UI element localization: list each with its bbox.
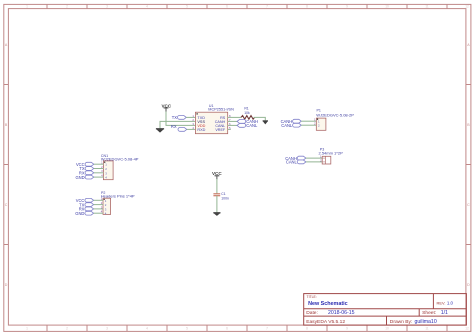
svg-text:2: 2 [66,5,68,9]
svg-text:VCC: VCC [212,171,222,176]
wire TX to P2 pin 2 [94,204,103,206]
net flag CANH (at P1) [281,119,302,124]
connector P2 Headers Pins 1*4P [101,191,135,214]
connector CN1 WJ2EDGVC-5.08-4P [101,154,139,180]
svg-text:GND: GND [75,211,84,216]
wire CANL to P1 pin 2 [301,124,316,126]
connector P1 WJ2EDGVC-5.08-2P [316,109,354,131]
wire CANH to P3 pin 1 [306,157,322,159]
net flag TX (at CN1) [79,166,93,171]
svg-text:6: 6 [226,5,228,9]
title block texts [306,295,453,325]
svg-text:1: 1 [26,327,28,331]
wire GND to CN1 pin 4 [94,176,104,178]
wire U1 CANL to flag [228,124,238,126]
svg-text:5: 5 [186,327,188,331]
svg-text:3: 3 [106,5,108,9]
wire VCC to CN1 pin 1 [94,163,104,165]
svg-text:Date:: Date: [306,310,318,316]
svg-text:New Schematic: New Schematic [308,301,348,307]
wire GND to P2 pin 4 [94,212,103,214]
svg-text:7: 7 [266,327,268,331]
svg-text:12: 12 [465,327,469,331]
svg-text:CANL: CANL [281,123,293,128]
svg-text:9: 9 [346,327,348,331]
wire RX to CN1 pin 3 [94,172,104,174]
svg-text:C: C [5,203,8,207]
wire U1 RS to R1 [228,116,241,118]
wire VCC to P2 pin 1 [94,199,103,201]
svg-text:6: 6 [226,327,228,331]
svg-text:8: 8 [306,5,308,9]
svg-text:9: 9 [346,5,348,9]
svg-text:Sheet:: Sheet: [422,310,436,316]
net flag RX (at CN1) [79,171,94,176]
wire U1 VSS to ground [160,121,195,128]
wire VCC to C1 [216,179,218,194]
U1 VREF stub [228,128,231,130]
svg-text:C1: C1 [221,192,225,196]
net flag CANL (at U1) [237,123,258,128]
net flag TX (at P2) [79,202,93,207]
svg-text:7: 7 [266,5,268,9]
net flag VCC (at P2) [76,198,94,203]
wire C1 to ground [216,196,218,213]
svg-text:12: 12 [465,5,469,9]
svg-text:2: 2 [66,327,68,331]
wire R1 to ground [254,117,266,120]
svg-text:10k: 10k [244,111,250,115]
svg-text:2018-06-15: 2018-06-15 [328,310,355,316]
svg-text:11: 11 [425,327,429,331]
connector P3 2.54mm 1*2P [319,148,344,165]
capacitor C1 100n [213,192,229,201]
svg-text:VREF: VREF [215,128,226,132]
net flag VCC (at CN1) [76,162,94,167]
svg-text:2.54mm 1*2P: 2.54mm 1*2P [319,150,344,155]
wire RX to U1 RXD [187,128,196,130]
svg-text:4: 4 [146,5,148,9]
svg-text:8: 8 [306,327,308,331]
svg-text:4: 4 [146,327,148,331]
ground (near U1 VSS) [156,129,164,133]
svg-text:1/1: 1/1 [441,310,448,316]
net flag CANH (at P3) [285,156,306,161]
svg-text:CANL: CANL [286,160,298,165]
net flag CANL (at P1) [281,123,301,128]
svg-text:10: 10 [385,5,389,9]
svg-text:TITLE:: TITLE: [307,295,317,299]
net flag GND (at CN1) [75,175,93,180]
svg-text:D: D [5,283,8,287]
svg-text:GND: GND [75,175,84,180]
power flag VCC (at C1) [212,171,222,180]
net flag RX [171,124,187,131]
wire U1 CANH to flag [228,120,238,122]
net flag RX (at P2) [79,207,94,212]
svg-text:TX: TX [172,115,178,120]
svg-text:11: 11 [425,5,429,9]
title block [304,294,467,326]
net flag GND (at P2) [75,211,93,216]
svg-text:C: C [467,203,470,207]
svg-text:guilima10: guilima10 [415,319,437,325]
svg-text:MCP2551-I/SN: MCP2551-I/SN [208,108,234,112]
wire TX to U1 TXD [186,116,195,118]
wire CANL to P3 pin 2 [306,161,322,163]
svg-text:EasyEDA V5.5.12: EasyEDA V5.5.12 [306,319,345,325]
ground (below C1) [213,213,220,216]
svg-text:5: 5 [186,5,188,9]
svg-text:WJ2EDGVC-5.08-2P: WJ2EDGVC-5.08-2P [316,112,354,117]
wire CANH to P1 pin 1 [301,120,316,122]
svg-text:RX: RX [171,124,177,129]
resistor R1 [241,107,255,120]
wire TX to CN1 pin 2 [94,168,104,170]
svg-text:D: D [467,283,470,287]
net flag CANL (at P3) [286,160,306,165]
op-amp U1 MCP2551-I/SN body [195,104,234,134]
svg-text:Drawn By:: Drawn By: [390,319,413,325]
svg-text:1.0: 1.0 [447,300,454,305]
svg-text:CANL: CANL [246,123,258,128]
power flag VCC (net VCC, near U1) [161,103,171,112]
ground (near R1) [263,121,268,125]
net flag CANH (at U1) [237,119,258,124]
svg-text:RXD: RXD [197,128,205,132]
svg-text:3: 3 [106,327,108,331]
net flag TX [172,115,187,120]
svg-text:REV.: REV. [437,300,446,305]
svg-text:100n: 100n [221,196,229,200]
svg-text:1: 1 [26,5,28,9]
wire VCC to U1 VDD [166,112,195,126]
svg-text:10: 10 [385,327,389,331]
wire RX to P2 pin 3 [94,208,103,210]
